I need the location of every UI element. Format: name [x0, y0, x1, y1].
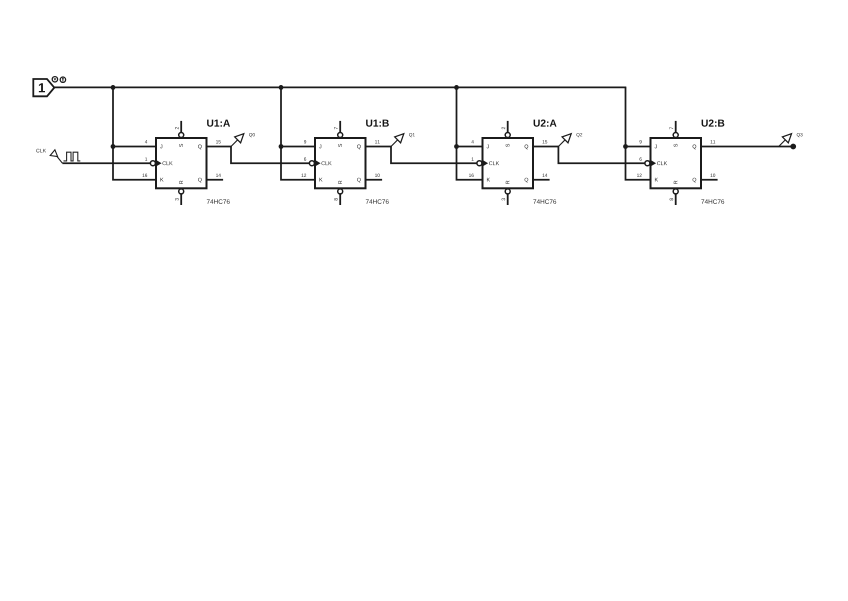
wire U1:B Q to U2:A clock [366, 147, 477, 164]
pin number 4 (J) [145, 140, 147, 143]
node Q3 end dot [790, 144, 796, 150]
pin number 2 (set) [175, 127, 178, 129]
body [651, 138, 702, 188]
wire J feed for U1:A [113, 146, 156, 148]
Q-bar stub wire [701, 179, 718, 181]
set pin bubble [338, 133, 343, 138]
pin label CLK [321, 161, 331, 165]
pin label K [319, 178, 322, 182]
reference label U1:A [207, 120, 230, 127]
pin number 16 (K) [469, 174, 474, 177]
pin number 10 (Q-bar) [711, 174, 716, 177]
junction at J feed of U1:A [111, 144, 116, 149]
pin number 6 (CLK) [640, 157, 642, 160]
wire J/K feed drop for U1:B [281, 87, 315, 179]
pin label CLK [657, 161, 667, 165]
pin number 15 (Q) [543, 140, 548, 143]
clock edge triangle [651, 160, 656, 166]
pin label Q [357, 145, 361, 150]
probe Q1 [391, 133, 415, 146]
pin label K [160, 178, 163, 182]
pin number 7 (set) [334, 127, 337, 129]
value label 74HC76 [533, 199, 556, 204]
body [483, 138, 534, 188]
pin label R [506, 181, 510, 184]
pin number 8 (reset) [670, 198, 674, 200]
reset pin stub [675, 194, 677, 205]
pin number 7 (set) [670, 127, 673, 129]
reset pin bubble [338, 189, 343, 194]
wire J feed for U2:A [457, 146, 483, 148]
clock generator CLK [36, 149, 80, 163]
reference label U2:B [702, 119, 725, 126]
body [315, 138, 366, 188]
junction at J feed of U1:B [279, 144, 284, 149]
pin label J [319, 145, 321, 149]
logic state 1 [33, 79, 54, 96]
pin label Q-bar [357, 178, 361, 183]
reset pin stub [339, 194, 341, 205]
wire J feed for U2:B [626, 146, 651, 148]
pin number 15 (Q) [216, 140, 221, 143]
pin number 8 (reset) [334, 198, 338, 200]
pin number 6 (CLK) [304, 157, 306, 160]
pin number 16 (K) [143, 174, 148, 177]
clock pin bubble [150, 161, 155, 166]
clock pin bubble [309, 161, 314, 166]
Q-bar stub wire [366, 179, 383, 181]
value label 74HC76 [207, 199, 230, 204]
JK flip-flop U2:A 74HC76 [469, 119, 557, 205]
pin number 3 (reset) [502, 198, 506, 200]
probe Q2 [558, 133, 582, 146]
set pin stub [507, 121, 509, 132]
pin number 14 (Q-bar) [216, 174, 221, 177]
logic state toggle buttons [52, 77, 65, 83]
JK flip-flop U2:B 74HC76 [637, 119, 724, 205]
pin number 11 (Q) [711, 140, 716, 143]
set pin bubble [505, 133, 510, 138]
wire J/K feed drop for U2:A [457, 87, 483, 179]
reset pin bubble [179, 189, 184, 194]
JK flip-flop U1:B 74HC76 [302, 120, 389, 205]
pin number 10 (Q-bar) [375, 174, 380, 177]
pin label R [179, 181, 183, 184]
probe Q0 [231, 133, 255, 146]
pin label S [674, 144, 678, 147]
wire U2:B Q output [701, 146, 793, 148]
reference label U2:A [534, 119, 557, 126]
reset pin bubble [673, 189, 678, 194]
pin label J [160, 145, 162, 149]
reference label U1:B [366, 120, 389, 127]
clock edge triangle [483, 160, 488, 166]
pin label Q [198, 145, 202, 150]
reset pin stub [507, 194, 509, 205]
junction at J feed of U2:A [454, 144, 459, 149]
junction on top rail for U1:A [111, 85, 116, 90]
pin number 1 (CLK) [145, 157, 147, 160]
pin label S [338, 144, 342, 147]
pin number 12 (K) [637, 174, 642, 177]
set pin stub [675, 121, 677, 132]
wire J/K feed drop for U1:A [113, 87, 156, 179]
junction on top rail for U1:B [279, 85, 284, 90]
wire U1:A Q to U1:B clock [207, 147, 310, 164]
wire top rail from logic state to flip-flop J/K feeds [54, 86, 626, 88]
set pin stub [339, 121, 341, 132]
JK flip-flop U1:A 74HC76 [143, 120, 231, 205]
clock edge triangle [316, 160, 321, 166]
junction at J feed of U2:B [623, 144, 628, 149]
pin label J [487, 145, 489, 149]
value label 74HC76 [701, 199, 724, 204]
pin number 9 (J) [304, 140, 306, 143]
wire CLK generator to U1:A clock [62, 162, 150, 164]
pin label Q-bar [198, 178, 202, 183]
pin label K [487, 178, 490, 182]
pin number 14 (Q-bar) [543, 174, 548, 177]
pin label K [655, 178, 658, 182]
reset pin stub [180, 194, 182, 205]
pin number 12 (K) [302, 174, 307, 177]
pin label R [674, 181, 678, 184]
junction on top rail for U2:A [454, 85, 459, 90]
pin label S [179, 144, 183, 147]
set pin bubble [179, 133, 184, 138]
pin label R [338, 181, 342, 184]
body [156, 138, 207, 188]
clock pin bubble [477, 161, 482, 166]
Q-bar stub wire [533, 179, 550, 181]
probe Q3 [779, 133, 803, 146]
pin number 4 (J) [471, 140, 473, 143]
wire J feed for U1:B [281, 146, 315, 148]
pin number 11 (Q) [375, 140, 380, 143]
value label 74HC76 [366, 199, 389, 204]
pin label Q-bar [525, 178, 529, 183]
pin label CLK [162, 161, 172, 165]
pin number 9 (J) [640, 140, 642, 143]
clock pin bubble [645, 161, 650, 166]
pin label Q-bar [693, 178, 697, 183]
set pin bubble [673, 133, 678, 138]
pin number 1 (CLK) [472, 157, 474, 160]
Q-bar stub wire [207, 179, 224, 181]
pin number 3 (reset) [175, 198, 179, 200]
reset pin bubble [505, 189, 510, 194]
clock edge triangle [157, 160, 162, 166]
pin number 2 (set) [502, 127, 505, 129]
pin label J [655, 145, 657, 149]
pin label Q [525, 145, 529, 150]
pin label CLK [489, 161, 499, 165]
wire J/K feed drop for U2:B [626, 87, 651, 179]
pin label Q [693, 145, 697, 150]
set pin stub [180, 121, 182, 132]
wire U2:A Q to U2:B clock [533, 147, 645, 164]
pin label S [506, 144, 510, 147]
